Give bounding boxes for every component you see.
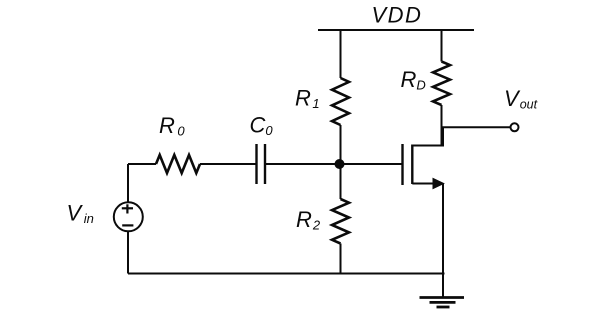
wire RD bottom lead to drain <box>441 105 443 146</box>
wire RD top lead <box>441 29 443 62</box>
resistor R1 <box>332 78 349 125</box>
wire node to R2 <box>340 164 342 199</box>
svg-text:VDD: VDD <box>372 3 423 28</box>
wire ground stub <box>442 274 444 298</box>
svg-text:Vin: Vin <box>67 201 94 227</box>
transistor M1 source lead <box>412 183 443 185</box>
resistor R0 <box>156 155 200 173</box>
wire R2 bottom lead <box>340 244 342 274</box>
svg-text:R1: R1 <box>295 85 320 111</box>
wire input top <box>128 163 156 165</box>
wire Vin top lead <box>127 164 129 203</box>
svg-text:R0: R0 <box>159 113 185 139</box>
ground <box>420 298 465 308</box>
wire bottom rail <box>128 273 445 275</box>
terminal Vout open circle <box>511 123 519 131</box>
wire R0 to C0 <box>200 163 257 165</box>
wire R1 top lead <box>340 29 342 78</box>
transistor M1 gate bar <box>401 144 403 185</box>
capacitor C0 <box>257 144 266 184</box>
node gate junction <box>335 159 345 169</box>
svg-text:RD: RD <box>401 67 426 93</box>
svg-text:C0: C0 <box>250 113 274 139</box>
resistor RD <box>433 62 450 106</box>
wire R1 bottom lead <box>340 125 342 164</box>
transistor M1 drain lead <box>412 127 443 145</box>
resistor R2 <box>332 199 349 244</box>
svg-text:R2: R2 <box>296 207 321 233</box>
svg-text:Vout: Vout <box>504 86 538 112</box>
wire C0 to gate <box>265 163 402 165</box>
transistor M1 channel bar <box>411 145 413 185</box>
wire Vin bottom lead <box>127 232 129 274</box>
transistor M1 source arrow <box>433 178 445 190</box>
source Vin <box>114 202 143 231</box>
wire Vout tap <box>442 126 511 128</box>
wire VDD rail <box>318 29 474 31</box>
wire source down <box>442 184 444 274</box>
